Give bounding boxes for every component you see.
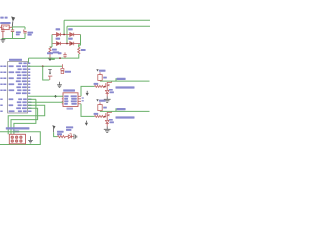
wire lead left: [0, 26, 2, 28]
wire: [72, 136, 74, 138]
resistor R5 zigzag: [95, 85, 105, 87]
net label stub A: [115, 78, 117, 81]
ground B: [106, 127, 108, 130]
wire left side: [51, 35, 53, 47]
resistor R4 box: [99, 72, 101, 74]
label R2: [81, 49, 86, 51]
wire output top: [13, 26, 26, 28]
label C2: [28, 32, 34, 34]
label D7: [68, 38, 73, 40]
ground: [30, 136, 32, 140]
wire: [65, 136, 68, 138]
ground near IC: [59, 82, 61, 85]
label R4: [99, 70, 106, 72]
diode D6: [52, 42, 70, 46]
input flag: [85, 121, 87, 123]
junction: [104, 86, 106, 88]
wire input B: [81, 104, 95, 117]
capacitor C4: [48, 75, 52, 77]
capacitor C_in: [2, 27, 4, 29]
label ICSP: [13, 131, 19, 133]
junction: [66, 43, 68, 45]
label R7: [94, 113, 99, 115]
diode D3: [106, 120, 109, 123]
junction: [54, 95, 57, 98]
resistor R7 zigzag: [95, 115, 105, 117]
capacitor C3: [64, 52, 66, 54]
resistor R1 vertical zigzag: [49, 47, 51, 54]
LED D1: [68, 135, 71, 138]
power flag VIN: [11, 22, 14, 27]
label R5: [94, 83, 99, 85]
resistor R3: [58, 136, 66, 138]
wire output A: [100, 80, 150, 82]
power flag: [96, 99, 98, 101]
label R6 value: [103, 107, 107, 109]
net label A: [117, 78, 126, 80]
label D4: [56, 28, 61, 30]
junction: [42, 65, 44, 67]
ground arrow: [49, 54, 51, 58]
label Y1: [65, 71, 71, 73]
wire bottom rail: [2, 38, 25, 40]
ground A: [106, 97, 108, 100]
junction: [59, 57, 61, 59]
wire lead right: [9, 26, 12, 28]
net label B: [117, 108, 126, 110]
wire: [29, 54, 79, 58]
regulator U1 box: [2, 25, 10, 30]
capacitor C2 polarized: [24, 27, 26, 30]
wire output B: [100, 110, 150, 112]
wire: [28, 98, 36, 100]
diode D4: [52, 33, 70, 37]
label LD1117 value: [0, 22, 10, 24]
junction: [104, 116, 106, 118]
power flag: [48, 70, 51, 73]
wire: [54, 132, 58, 136]
resistor R6 box: [99, 102, 101, 104]
label U2 title: [9, 59, 22, 61]
power flag: [53, 128, 55, 132]
label Q6: [116, 116, 135, 118]
mosfet Q5: [105, 81, 112, 90]
IC box: [8, 62, 28, 113]
capacitor C1: [12, 27, 14, 30]
wire top rail 1: [64, 19, 150, 21]
connector box: [9, 134, 25, 144]
pins text inside: [64, 95, 77, 104]
wire to IC pin: [27, 58, 30, 63]
wire top rail 2: [67, 25, 150, 27]
pin rows: [0, 62, 31, 112]
mosfet Q6: [105, 111, 112, 120]
wire wrap 1: [8, 105, 45, 134]
wire input A: [81, 86, 95, 96]
wire right side: [79, 35, 81, 48]
label Programming Connector: [6, 127, 30, 129]
label IC1: [0, 17, 3, 19]
label J1: [63, 89, 75, 91]
net label stub B: [115, 108, 117, 111]
wires IC to connector: [28, 95, 63, 97]
input flag: [86, 91, 88, 93]
label D5: [68, 28, 73, 30]
frame: [0, 132, 40, 145]
ground rotated: [74, 134, 77, 139]
crystal Y1: [61, 64, 63, 68]
ground GND1: [2, 39, 4, 40]
pads: [11, 136, 22, 142]
wire tap lower: [66, 26, 68, 43]
pin leads right: [78, 96, 81, 104]
net label green: [51, 58, 55, 60]
label D2: [110, 91, 114, 93]
wire: [50, 46, 52, 48]
pin leads left: [62, 96, 63, 104]
wire wrap 2: [11, 108, 38, 134]
power flag: [96, 69, 98, 71]
junction: [71, 43, 73, 45]
label D1: [66, 126, 73, 128]
label D6: [56, 38, 61, 40]
label R4 value: [103, 77, 107, 79]
wire wrap 3 long vertical: [14, 99, 36, 134]
junction: [57, 43, 59, 45]
label R6: [99, 100, 106, 102]
junction: [63, 34, 65, 36]
diode D5: [70, 33, 81, 37]
resistor R2 vertical zigzag: [78, 44, 80, 47]
label C1: [16, 31, 21, 33]
label below box: [67, 108, 74, 110]
diode D2: [106, 90, 109, 93]
wire tap upper: [63, 20, 65, 34]
label R1: [52, 49, 57, 51]
diode D7: [70, 42, 81, 46]
connector box: [63, 93, 78, 107]
label C3: [47, 52, 53, 54]
label D3: [110, 121, 114, 123]
wire: [28, 101, 63, 103]
label R3: [57, 131, 64, 133]
wire branch down: [43, 66, 50, 80]
pin numbers right: [82, 97, 84, 101]
label Q5: [116, 86, 135, 88]
wire from pin 2: [28, 65, 63, 67]
